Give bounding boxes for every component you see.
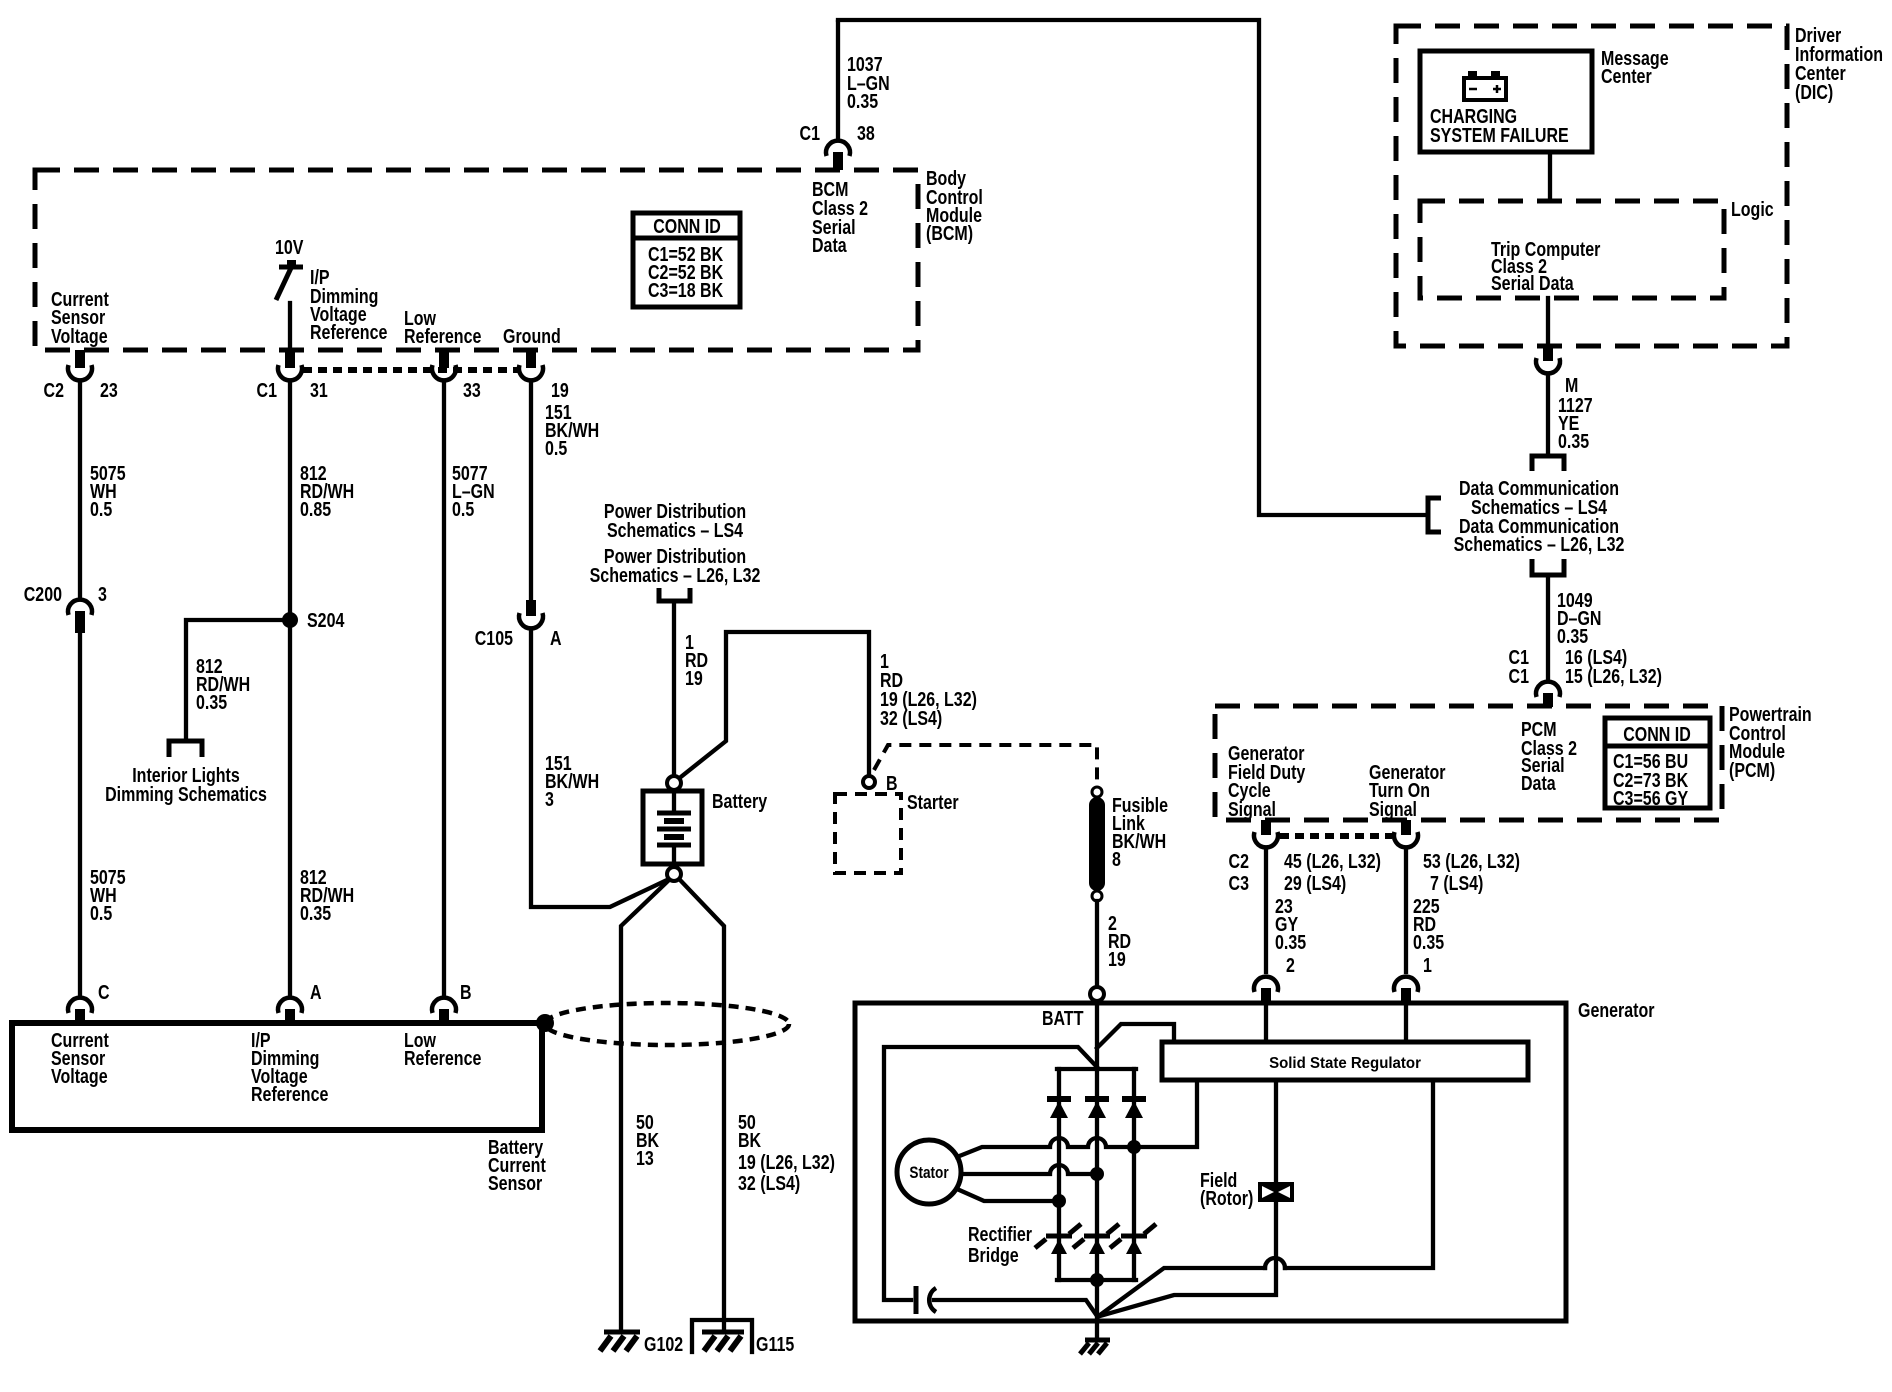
off-page bracket: serial data from BCM (left): [1428, 498, 1441, 532]
svg-text:BK: BK: [738, 1129, 761, 1151]
connector pin 2 at generator: [1254, 954, 1295, 1003]
svg-text:0.5: 0.5: [90, 498, 112, 520]
connector C1 pin 16/15 at PCM top: [1536, 682, 1560, 707]
module DIC dashed box (Driver Information Center): [1396, 26, 1787, 346]
wire label: 1 RD 19: [685, 631, 708, 689]
svg-text:Generator: Generator: [1578, 999, 1654, 1021]
module PCM dashed box (Powertrain Control Module): [1215, 706, 1722, 820]
conn id table (PCM): [1605, 718, 1710, 809]
svg-text:Voltage: Voltage: [51, 1065, 108, 1087]
label: Power Distribution Schematics: [590, 500, 761, 586]
svg-text:C3=56 GY: C3=56 GY: [1613, 787, 1688, 809]
pin labels C105 A: [475, 627, 562, 649]
svg-text:Voltage: Voltage: [51, 325, 108, 347]
message center indicator box: [1420, 51, 1592, 152]
battery B1: [643, 791, 702, 867]
label: I/P Dimming Voltage Reference (BCM pin): [310, 266, 387, 343]
generator BATT ring terminal: [1090, 987, 1104, 1001]
svg-text:Starter: Starter: [907, 791, 959, 813]
wire: circuit 23 GY: [1264, 848, 1268, 972]
svg-text:C3=18 BK: C3=18 BK: [648, 279, 723, 301]
svg-text:Reference: Reference: [310, 321, 387, 343]
diode D1 upper: [1047, 1099, 1071, 1118]
svg-text:Rectifier: Rectifier: [968, 1223, 1032, 1245]
svg-text:Reference: Reference: [251, 1083, 328, 1105]
svg-text:SYSTEM FAILURE: SYSTEM FAILURE: [1430, 124, 1569, 146]
wire: pin 1 to regulator: [1404, 1006, 1408, 1042]
label: Low Reference (sensor): [404, 1029, 481, 1069]
svg-text:8: 8: [1112, 848, 1121, 870]
svg-text:19: 19: [1108, 948, 1126, 970]
svg-text:Reference: Reference: [404, 325, 481, 347]
wire: circuit 5075 upper (C2-23 to C200): [78, 381, 82, 599]
pin labels C2 23: [44, 379, 118, 401]
svg-text:S204: S204: [307, 609, 344, 631]
svg-text:0.35: 0.35: [1557, 625, 1588, 647]
label: I/P Dimming Voltage Reference (sensor): [251, 1029, 328, 1105]
svg-text:B: B: [886, 772, 898, 794]
svg-text:3: 3: [98, 583, 107, 605]
wire: circuit 5075 lower (C200 to sensor C): [78, 633, 82, 997]
wire: logic to DIC connector: [1546, 298, 1550, 346]
wire label: 5075 WH 0.5 (lower): [90, 866, 126, 924]
module: Battery Current Sensor box: [12, 1023, 542, 1130]
module Generator box: [855, 1003, 1566, 1321]
label: Current Sensor Voltage (BCM pin): [51, 288, 109, 347]
label: PCM Class 2 Serial Data: [1521, 718, 1577, 794]
module BCM dashed box (Body Control Module): [35, 170, 918, 350]
svg-text:C2: C2: [44, 379, 64, 401]
svg-text:19: 19: [685, 667, 703, 689]
pin labels C200 3: [24, 583, 107, 605]
wire: dashed battery feed to fusible link: [874, 745, 1097, 789]
svg-text:53 (L26, L32): 53 (L26, L32): [1423, 850, 1520, 872]
connector pin 1 at generator: [1394, 954, 1432, 1003]
wire label: 50 BK 13: [636, 1111, 659, 1169]
wire: circuit 151 upper (pin 19 to C105): [529, 381, 533, 600]
wire: circuit 1127 YE: [1546, 374, 1550, 454]
wire label: 812 RD/WH 0.85: [300, 462, 354, 520]
10V supply switch inside BCM: [275, 236, 303, 350]
svg-text:Reference: Reference: [404, 1047, 481, 1069]
connector C1 pin 31 at BCM bottom: [278, 350, 302, 380]
wire label: 1049 D-GN 0.35: [1557, 589, 1601, 647]
battery warning icon: [1464, 71, 1506, 100]
svg-text:3: 3: [545, 788, 554, 810]
svg-text:29 (LS4): 29 (LS4): [1284, 872, 1346, 894]
wire label: 23 GY 0.35: [1275, 895, 1306, 953]
label: Message Center: [1601, 47, 1669, 87]
rectifier leg 1: [1057, 1069, 1061, 1280]
wire: BATT feed jog to regulator: [1097, 1024, 1174, 1048]
junction: phase 1 at leg 3: [1127, 1140, 1141, 1154]
label: Data Communication Schematics: [1454, 477, 1625, 555]
wire: circuit 151 lower to battery negative: [531, 629, 667, 907]
label: Low Reference (BCM pin): [404, 307, 481, 347]
svg-text:31: 31: [310, 379, 328, 401]
connector C2 pin 23 at BCM bottom: [68, 350, 92, 380]
label: Body Control Module (BCM): [926, 167, 983, 244]
svg-text:Logic: Logic: [1731, 198, 1774, 220]
svg-text:(PCM): (PCM): [1729, 759, 1775, 781]
label: CHARGING SYSTEM FAILURE: [1430, 105, 1569, 146]
svg-text:0.35: 0.35: [847, 90, 878, 112]
svg-text:Schematics – L26, L32: Schematics – L26, L32: [1454, 533, 1625, 555]
wire: left loop from capacitor to BATT node: [884, 1047, 1097, 1300]
wire: rectifier to generator ground: [1095, 1280, 1099, 1338]
wire: circuit 5077 (pin 33 to sensor B): [442, 381, 446, 997]
svg-text:Schematics – L26, L32: Schematics – L26, L32: [590, 564, 761, 586]
label: BCM Class 2 Serial Data: [812, 178, 868, 256]
svg-text:33: 33: [463, 379, 481, 401]
connector C105 pin A: [519, 600, 543, 628]
battery positive terminal ring: [667, 776, 681, 790]
svg-text:B: B: [460, 981, 472, 1003]
wire label: 812 RD/WH 0.35 (branch): [196, 655, 250, 713]
label: Generator Field Duty Cycle Signal: [1228, 742, 1305, 820]
starter dashed box: [835, 791, 959, 873]
ground G115: [692, 1320, 794, 1355]
connector pin M at DIC bottom: [1536, 346, 1578, 396]
wire label: 1037 L-GN 0.35: [847, 53, 890, 112]
ground G102: [600, 1332, 683, 1355]
svg-text:Bridge: Bridge: [968, 1244, 1019, 1266]
svg-text:Signal: Signal: [1369, 798, 1417, 820]
svg-text:0.35: 0.35: [196, 691, 227, 713]
wire: battery negative cable to G115: [681, 881, 724, 1332]
svg-text:C: C: [98, 981, 110, 1003]
junction: phase 3 at leg 1: [1052, 1194, 1066, 1208]
label: Battery Current Sensor: [488, 1136, 546, 1194]
wire label: 1 RD 19 (L26,L32) 32 (LS4): [880, 650, 977, 729]
hop over field wire: [1265, 1258, 1285, 1268]
svg-text:10V: 10V: [275, 236, 303, 258]
svg-text:32 (LS4): 32 (LS4): [738, 1172, 800, 1194]
wire: circuit 812 (C1-31 to sensor A): [288, 381, 292, 997]
wire label: 1127 YE 0.35: [1558, 394, 1593, 452]
label: Generator Turn On Signal: [1369, 761, 1445, 820]
svg-text:32 (LS4): 32 (LS4): [880, 707, 942, 729]
conn id table (BCM): [633, 213, 740, 307]
field rotor winding symbol: [1258, 1182, 1294, 1202]
label: Fusible Link BK/WH 8: [1112, 794, 1168, 870]
label: Trip Computer Class 2 Serial Data: [1491, 238, 1600, 294]
svg-text:38: 38: [857, 122, 875, 144]
svg-text:(DIC): (DIC): [1795, 81, 1833, 103]
svg-text:C1: C1: [800, 122, 820, 144]
svg-text:Stator: Stator: [909, 1164, 948, 1183]
label: Rectifier Bridge: [968, 1223, 1032, 1266]
junction: phase 2 at leg 2: [1090, 1167, 1104, 1181]
label: Interior Lights Dimming Schematics: [105, 764, 267, 805]
svg-text:0.35: 0.35: [1413, 931, 1444, 953]
label: Powertrain Control Module (PCM): [1729, 703, 1812, 781]
wire: stator phase 3: [957, 1189, 1059, 1201]
connector link dashed line: [1280, 833, 1392, 839]
rectifier leg 2: [1095, 1069, 1099, 1280]
svg-text:Data: Data: [812, 234, 847, 256]
logic dashed box: [1420, 198, 1774, 298]
svg-text:7 (LS4): 7 (LS4): [1430, 872, 1483, 894]
connector pin 19 at BCM bottom: [519, 350, 543, 380]
fusible link BK/WH 8: [1089, 787, 1105, 901]
svg-text:Serial Data: Serial Data: [1491, 272, 1575, 294]
wire: S204 branch to interior lights dimming: [186, 620, 290, 739]
wire: BATT feed into rectifier bus: [1095, 1003, 1099, 1069]
junction: sensor clamp node: [536, 1014, 554, 1032]
svg-text:A: A: [310, 981, 322, 1003]
wire label: 225 RD 0.35: [1413, 895, 1444, 953]
off-page bracket: power distribution feed: [659, 588, 690, 601]
starter B ring terminal: [863, 772, 898, 794]
svg-text:A: A: [550, 627, 562, 649]
svg-text:C105: C105: [475, 627, 513, 649]
connector C1 pin 38 at BCM top: [826, 22, 850, 170]
off-page bracket: interior lights dimming schematics: [169, 741, 202, 757]
label: Field (Rotor): [1200, 1169, 1253, 1209]
wire: circuit 1 RD 19 to battery positive: [672, 601, 676, 776]
rectifier leg 3: [1132, 1069, 1136, 1280]
svg-text:45 (L26, L32): 45 (L26, L32): [1284, 850, 1381, 872]
svg-text:C1: C1: [257, 379, 277, 401]
wire: message center to logic: [1548, 152, 1552, 201]
connector C2/C3 pin 45/29 at PCM bottom: [1254, 820, 1278, 847]
wire: battery positive to starter B: [677, 632, 869, 780]
svg-text:1: 1: [1423, 954, 1432, 976]
svg-text:Center: Center: [1601, 65, 1652, 87]
rectifier bridge top bus: [1057, 1067, 1136, 1071]
svg-text:Battery: Battery: [712, 790, 767, 812]
diode D5 lower (avalanche): [1073, 1224, 1119, 1254]
svg-text:2: 2: [1286, 954, 1295, 976]
svg-text:CONN ID: CONN ID: [1623, 723, 1691, 745]
generator internal ground: [1080, 1340, 1110, 1354]
svg-text:0.5: 0.5: [545, 437, 567, 459]
wire label: 5075 WH 0.5: [90, 462, 126, 520]
pin labels C1 C1 16 15: [1509, 646, 1662, 687]
svg-text:Sensor: Sensor: [488, 1172, 542, 1194]
wire: circuit 225 RD: [1404, 848, 1408, 972]
connector link dashed line pins 31-33-19: [303, 367, 519, 373]
wire: stator phase 2: [961, 1165, 1097, 1174]
connector pin 53/7 at PCM bottom: [1394, 820, 1418, 847]
wire label: 151 BK/WH 0.5: [545, 401, 599, 459]
capacitor C (noise suppression): [916, 1286, 936, 1314]
sensor clamp dashed ellipse around battery cables: [545, 1003, 789, 1045]
label: Driver Information Center (DIC): [1795, 24, 1883, 103]
label: Current Sensor Voltage (sensor): [51, 1029, 109, 1087]
svg-text:0.35: 0.35: [300, 902, 331, 924]
pin labels C1 38: [800, 122, 875, 144]
svg-text:15 (L26, L32): 15 (L26, L32): [1565, 665, 1662, 687]
svg-text:G102: G102: [644, 1333, 683, 1355]
battery negative terminal ring: [667, 867, 681, 881]
wire label: 5077 L-GN 0.5: [452, 462, 495, 520]
wire: pin 2 to regulator: [1264, 1006, 1268, 1042]
diode D2 upper: [1085, 1099, 1109, 1118]
connector pin C at sensor: [68, 981, 110, 1023]
stator winding: [897, 1140, 961, 1204]
svg-text:Dimming Schematics: Dimming Schematics: [105, 783, 267, 805]
connector C200 pin 3: [68, 600, 92, 633]
svg-text:CONN ID: CONN ID: [653, 215, 721, 237]
pin labels C2 C3 45 29 53 7: [1229, 850, 1520, 894]
wire: circuit 2 RD 19 to generator BATT: [1095, 901, 1099, 986]
svg-text:0.35: 0.35: [1275, 931, 1306, 953]
diode D6 lower (avalanche): [1110, 1224, 1156, 1254]
rectifier bridge bottom bus: [1057, 1278, 1136, 1282]
svg-text:Ground: Ground: [503, 325, 561, 347]
splice S204: [282, 609, 344, 631]
svg-text:23: 23: [100, 379, 118, 401]
off-page bracket: data communication (upper): [1532, 456, 1564, 471]
svg-text:13: 13: [636, 1147, 654, 1169]
connector pin B at sensor: [432, 981, 472, 1023]
wire: BCM C1/38 serial data to data-communication junction (top run): [838, 20, 1426, 515]
svg-text:0.5: 0.5: [90, 902, 112, 924]
svg-text:(Rotor): (Rotor): [1200, 1187, 1253, 1209]
pin labels C1 31: [257, 379, 328, 401]
wire label: 2 RD 19: [1108, 912, 1131, 970]
svg-text:M: M: [1565, 374, 1578, 396]
wire: battery negative cable to G102: [621, 881, 668, 1332]
svg-text:G115: G115: [756, 1333, 794, 1355]
svg-text:C3: C3: [1229, 872, 1249, 894]
svg-text:0.35: 0.35: [1558, 430, 1589, 452]
wire label: 812 RD/WH 0.35 (lower): [300, 866, 354, 924]
svg-text:C200: C200: [24, 583, 62, 605]
wire: capacitor to ground fan: [934, 1300, 1097, 1316]
diode D3 upper: [1122, 1099, 1146, 1118]
svg-text:19 (L26, L32): 19 (L26, L32): [738, 1151, 835, 1173]
connector pin 33 at BCM bottom: [432, 350, 456, 380]
wire label: 50 BK 19 (L26,L32) 32 (LS4): [738, 1111, 835, 1194]
svg-text:(BCM): (BCM): [926, 222, 973, 244]
svg-text:19: 19: [551, 379, 569, 401]
wire: circuit 1049 D-GN: [1546, 575, 1550, 681]
svg-text:Data: Data: [1521, 772, 1556, 794]
wire label: 151 BK/WH 3: [545, 752, 599, 810]
wire: regulator to field: [1274, 1080, 1278, 1182]
svg-text:Schematics – LS4: Schematics – LS4: [607, 519, 743, 541]
wire: stator phase 1 to rectifier and regulator: [957, 1080, 1197, 1157]
svg-text:Solid State Regulator: Solid State Regulator: [1269, 1055, 1421, 1072]
svg-text:Signal: Signal: [1228, 798, 1276, 820]
junction: bottom bus to ground: [1090, 1273, 1104, 1287]
svg-text:BATT: BATT: [1042, 1007, 1083, 1029]
wire: regulator ground return with hop: [1285, 1080, 1433, 1268]
solid state regulator box: [1162, 1042, 1528, 1080]
wire: ground return diagonal: [1100, 1268, 1265, 1315]
connector pin A at sensor: [278, 981, 322, 1023]
svg-text:C1: C1: [1509, 665, 1529, 687]
svg-text:0.5: 0.5: [452, 498, 474, 520]
svg-text:0.85: 0.85: [300, 498, 331, 520]
diode D4 lower (avalanche): [1035, 1224, 1081, 1254]
wire: field to ground fan: [1100, 1202, 1276, 1316]
off-page bracket: data communication (lower): [1532, 559, 1564, 575]
svg-text:C2: C2: [1229, 850, 1249, 872]
